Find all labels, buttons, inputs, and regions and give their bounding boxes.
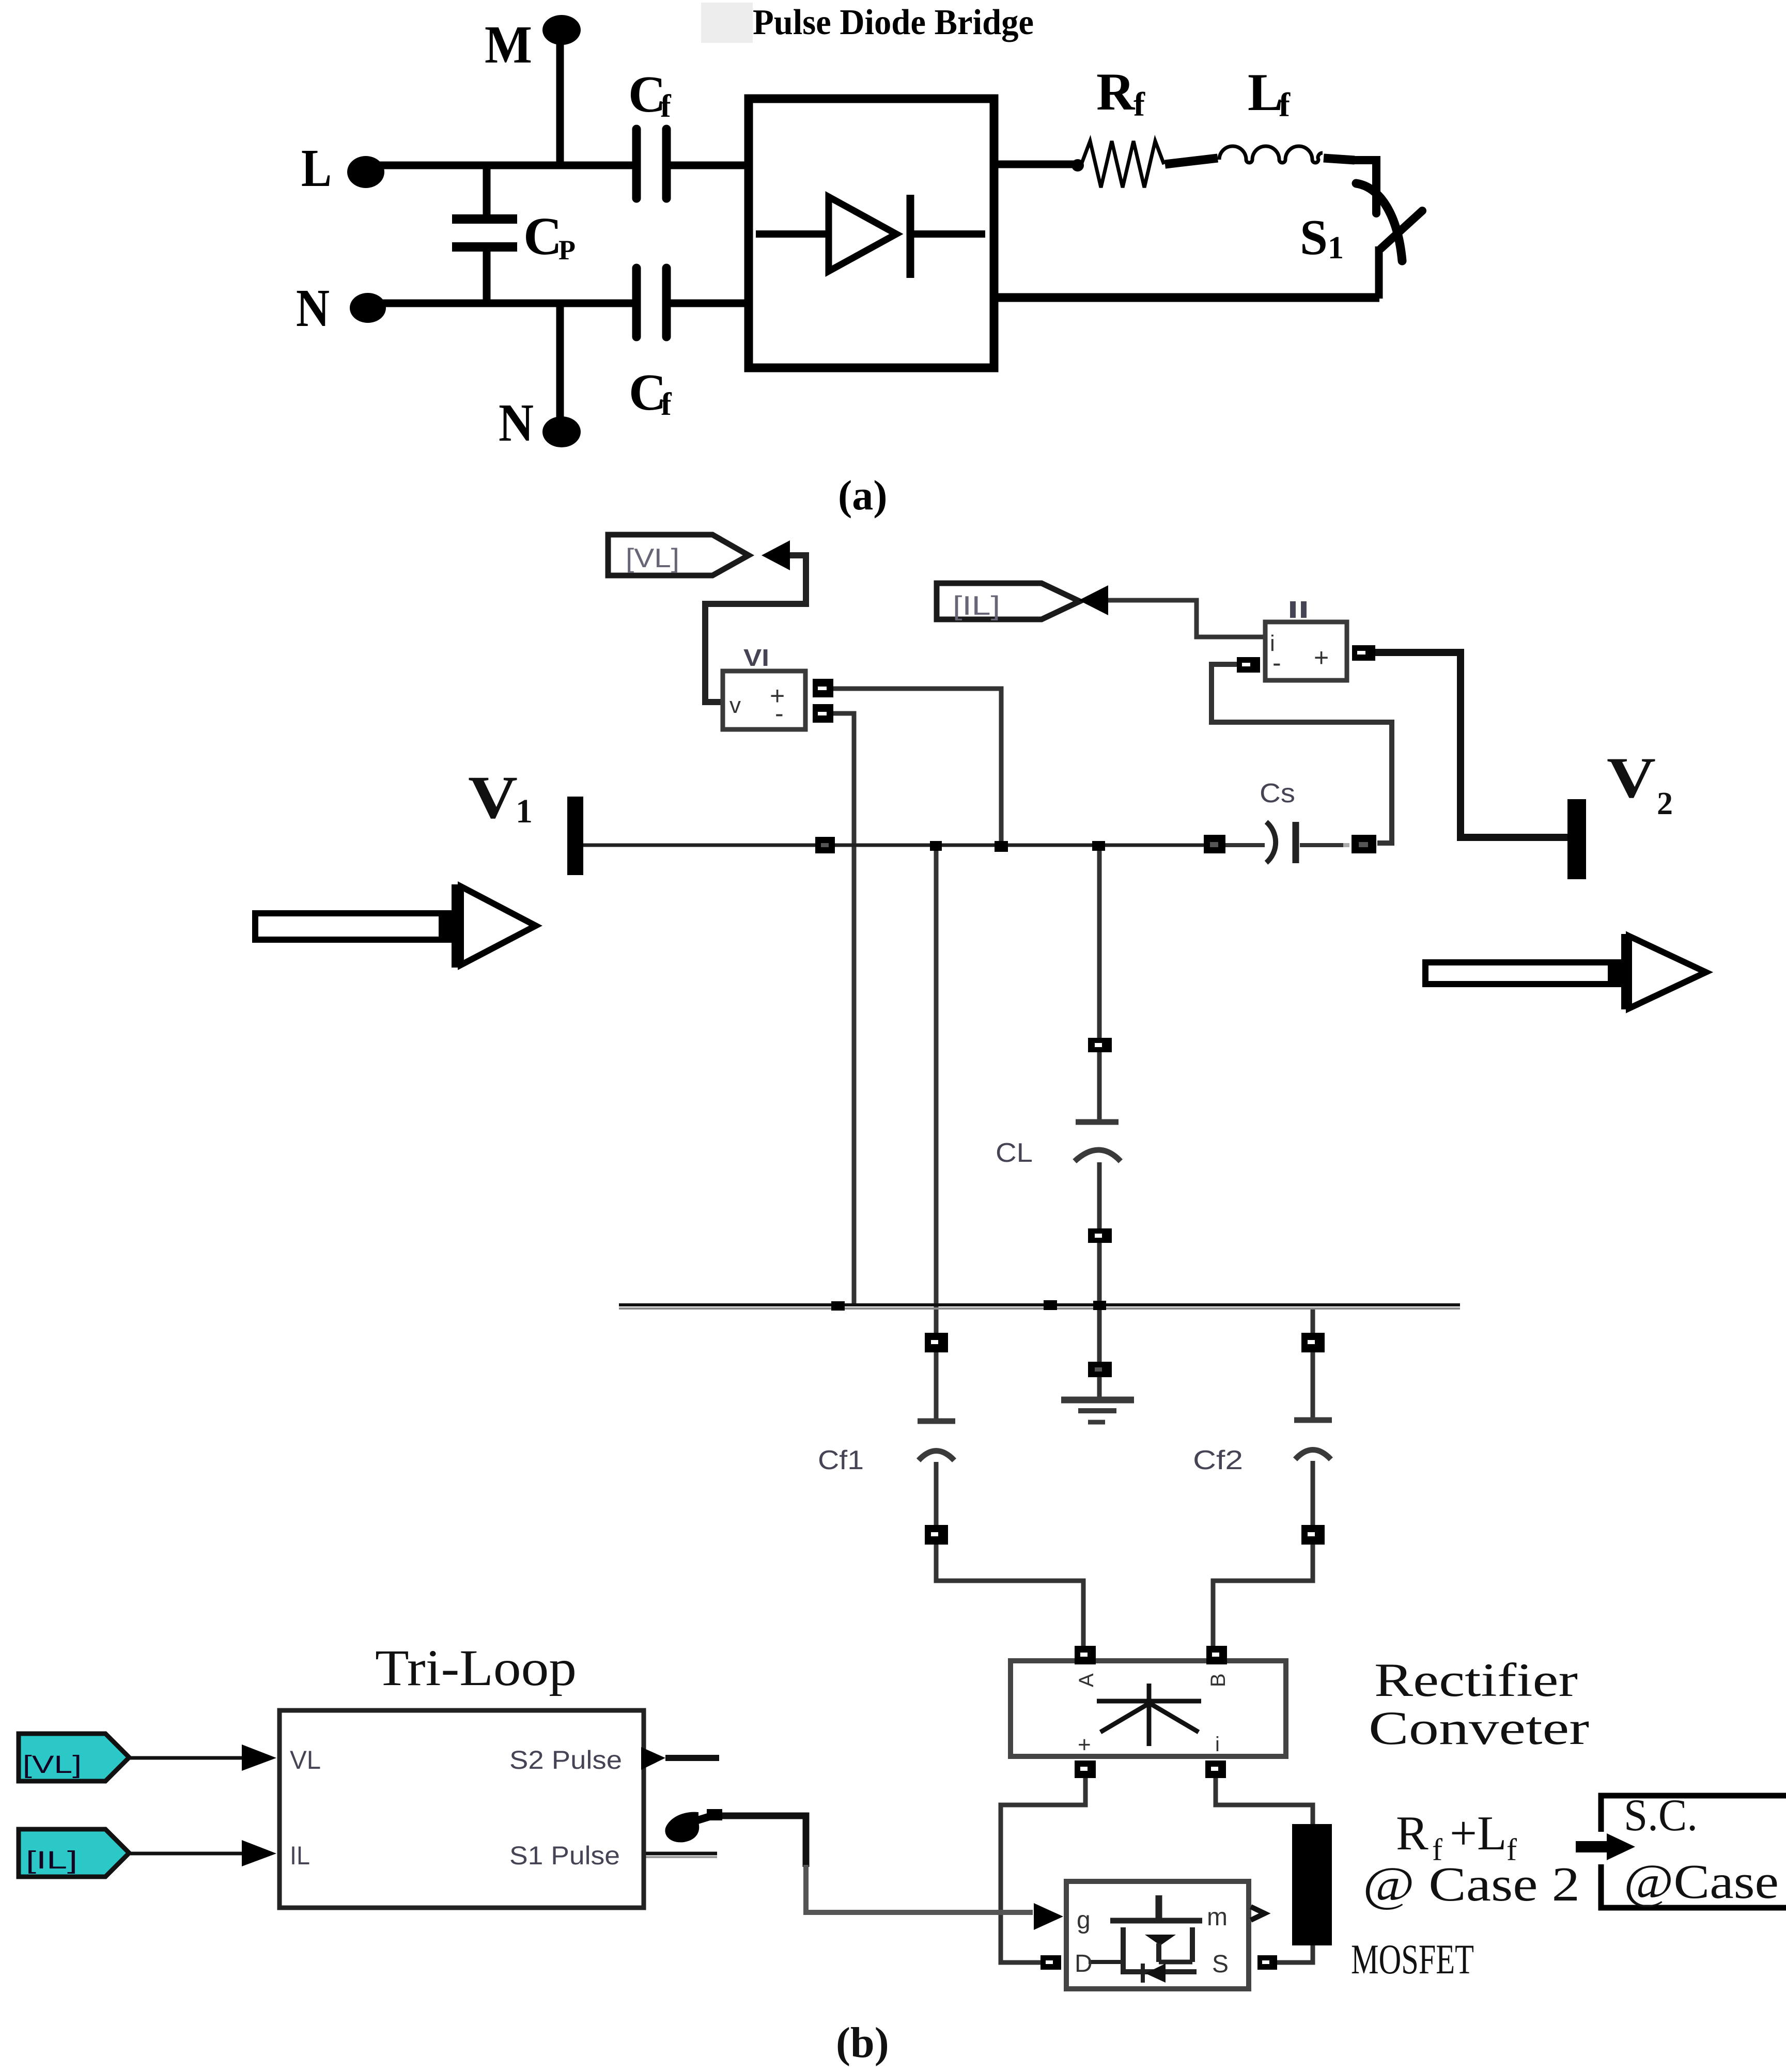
svg-text:CL: CL: [996, 1138, 1033, 1168]
svg-text:MOSFET: MOSFET: [1351, 1936, 1474, 1983]
svg-text:f: f: [660, 89, 672, 124]
svg-text:@ Case 2: @ Case 2: [1363, 1858, 1580, 1911]
svg-text:II: II: [1287, 596, 1309, 623]
svg-text:@Case: @Case: [1624, 1855, 1779, 1909]
svg-text:V: V: [468, 764, 518, 831]
svg-text:+: +: [1078, 1732, 1091, 1757]
svg-text:S1 Pulse: S1 Pulse: [509, 1841, 620, 1870]
svg-text:f: f: [1133, 86, 1145, 123]
svg-text:i: i: [1215, 1733, 1220, 1756]
svg-text:2: 2: [1657, 786, 1673, 821]
svg-text:Conveter: Conveter: [1369, 1702, 1589, 1754]
svg-text:A: A: [1075, 1673, 1098, 1687]
svg-text:(b): (b): [836, 2019, 889, 2067]
svg-text:Pulse Diode Bridge: Pulse Diode Bridge: [753, 3, 1034, 42]
svg-text:L: L: [1248, 63, 1283, 122]
svg-text:-: -: [1272, 648, 1281, 677]
svg-text:VL: VL: [290, 1746, 321, 1774]
svg-text:VI: VI: [743, 644, 769, 671]
svg-text:[VL]: [VL]: [626, 543, 679, 573]
svg-text:S2 Pulse: S2 Pulse: [509, 1746, 622, 1774]
svg-text:Cs: Cs: [1260, 778, 1295, 808]
svg-text:Rectifier: Rectifier: [1374, 1654, 1578, 1706]
svg-text:R: R: [1396, 1806, 1428, 1860]
svg-text:Cf1: Cf1: [818, 1445, 864, 1475]
svg-text:C: C: [523, 207, 562, 266]
svg-text:1: 1: [516, 792, 533, 830]
svg-text:M: M: [485, 15, 532, 74]
svg-text:D: D: [1075, 1950, 1093, 1977]
svg-text:[VL]: [VL]: [23, 1751, 82, 1779]
svg-text:L: L: [301, 138, 332, 198]
svg-text:Tri-Loop: Tri-Loop: [375, 1639, 577, 1696]
svg-text:S: S: [1300, 210, 1328, 265]
svg-text:1: 1: [1328, 230, 1344, 266]
svg-text:B: B: [1207, 1673, 1230, 1687]
svg-text:P: P: [558, 235, 576, 266]
svg-text:N: N: [499, 393, 534, 453]
svg-text:-: -: [775, 699, 784, 728]
svg-text:f: f: [661, 387, 672, 422]
svg-text:Cf2: Cf2: [1193, 1445, 1243, 1475]
svg-text:V: V: [1607, 746, 1656, 810]
svg-text:S: S: [1212, 1951, 1229, 1978]
svg-text:[IL]: [IL]: [953, 591, 1000, 621]
svg-text:g: g: [1077, 1907, 1091, 1934]
svg-text:R: R: [1096, 63, 1136, 121]
svg-text:+: +: [1314, 643, 1329, 672]
svg-text:+L: +L: [1450, 1806, 1507, 1860]
svg-text:f: f: [1279, 86, 1291, 124]
svg-text:[IL]: [IL]: [26, 1847, 77, 1874]
svg-text:(a): (a): [838, 472, 888, 519]
svg-text:v: v: [729, 693, 741, 718]
svg-text:m: m: [1207, 1904, 1228, 1931]
svg-text:IL: IL: [290, 1841, 310, 1870]
svg-text:S.C.: S.C.: [1624, 1790, 1698, 1841]
svg-text:N: N: [296, 278, 330, 338]
